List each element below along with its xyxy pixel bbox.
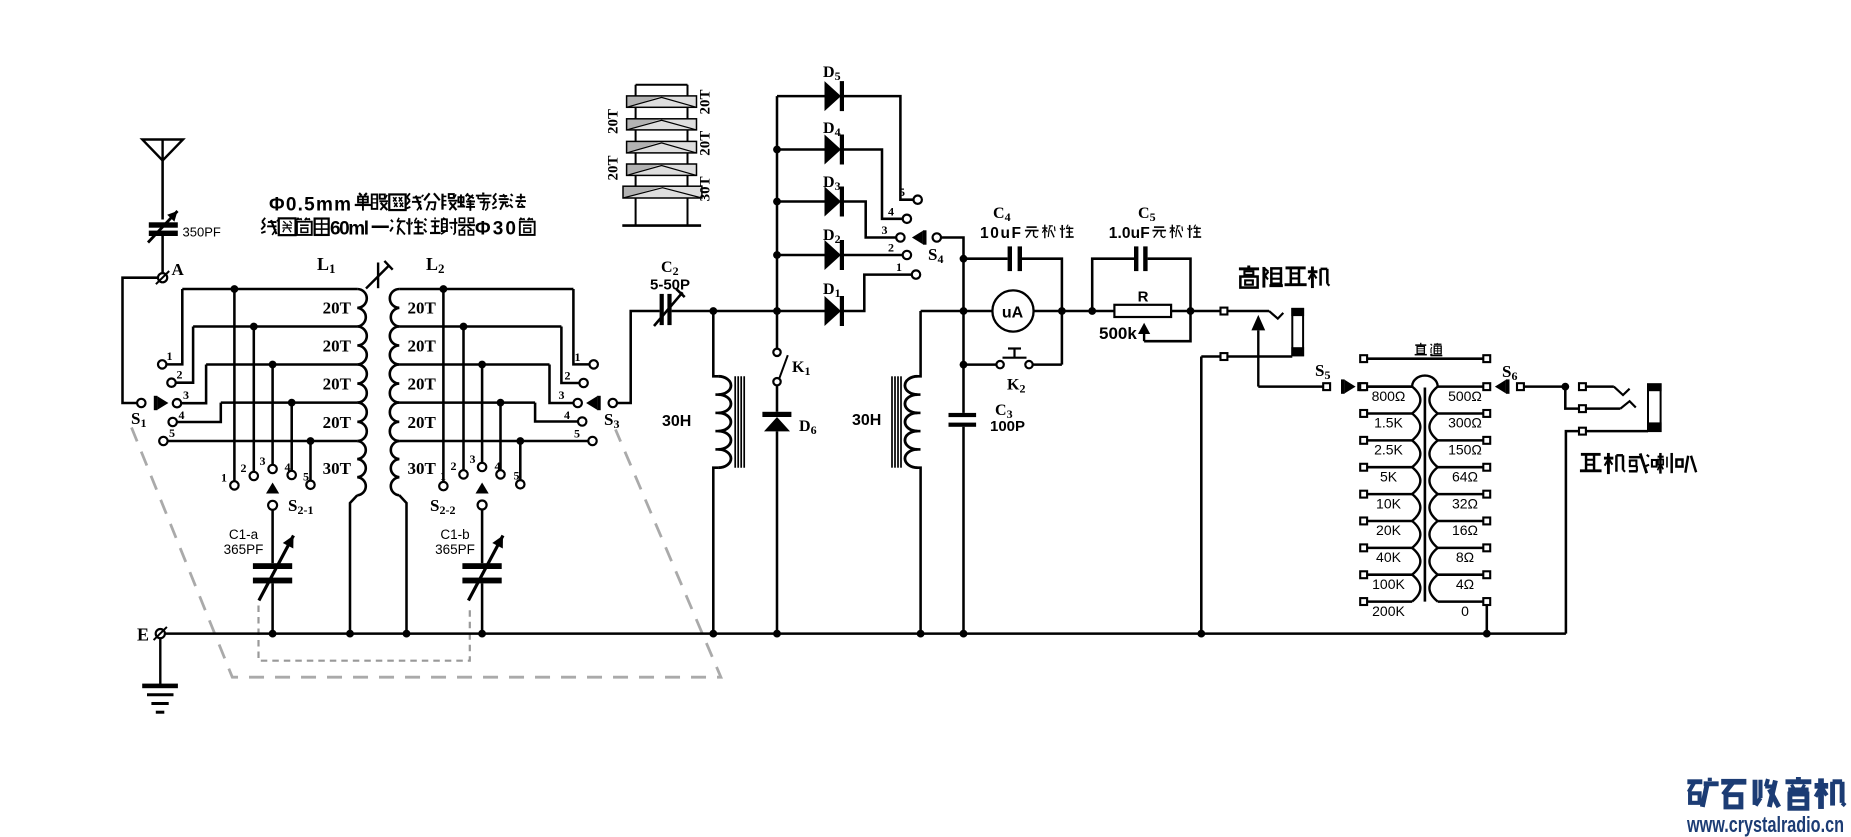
label C4 value cjk <box>1025 226 1039 237</box>
node A <box>158 273 167 282</box>
junction diode bus bottom <box>773 307 781 315</box>
wire to jack2 ring <box>1565 387 1579 409</box>
svg-text:20T: 20T <box>408 337 437 356</box>
S2-2 terminal 3 <box>478 463 486 471</box>
svg-text:1: 1 <box>440 469 446 483</box>
svg-text:1: 1 <box>167 349 173 363</box>
earth ground symbol <box>142 638 178 712</box>
junction choke1 bus <box>709 630 717 638</box>
svg-text:3: 3 <box>559 388 565 402</box>
wire uA to R <box>1034 310 1093 313</box>
honeycomb pancake 3 <box>627 141 697 153</box>
arrow of C1-b <box>468 536 503 601</box>
svg-text:Φ30: Φ30 <box>475 219 516 240</box>
svg-text:20T: 20T <box>323 337 352 356</box>
wire S3 wiper to C2 <box>617 311 660 403</box>
svg-text:365PF: 365PF <box>224 542 264 557</box>
junction D3 bus <box>773 198 781 206</box>
S5 left terminal <box>1323 383 1330 390</box>
label zhitong <box>1415 343 1427 356</box>
jack1 sleeve terminal <box>1221 353 1228 360</box>
S1 terminal 3 <box>173 399 181 407</box>
transformer right tap 4Ω <box>1438 573 1483 576</box>
S3 terminal 4 <box>578 417 586 425</box>
wire L2 tap3 to S3-t3 <box>550 365 574 404</box>
wire S1-t1 up to L1 top <box>166 289 182 364</box>
choke 2 winding <box>905 376 918 467</box>
junction output jack <box>1561 383 1569 391</box>
L2 tap line 5 <box>399 440 588 443</box>
junction 0 tap bus <box>1483 630 1491 638</box>
svg-text:30T: 30T <box>323 459 352 478</box>
node E <box>156 629 165 638</box>
wire jack2 sleeve to plug <box>1586 430 1648 433</box>
svg-text:2: 2 <box>565 369 571 383</box>
diode D1 <box>825 296 845 326</box>
diode D3 <box>825 187 845 217</box>
jack2 tip terminal <box>1579 383 1586 390</box>
svg-text:3: 3 <box>260 454 266 468</box>
capacitor C5 <box>1092 259 1134 311</box>
L1 tap line 2 <box>193 325 357 328</box>
junction L1 tap5 <box>307 437 315 445</box>
svg-text:4: 4 <box>495 459 501 473</box>
svg-text:5: 5 <box>899 185 905 199</box>
wire C2 to choke1 node <box>672 310 714 313</box>
svg-text:350PF: 350PF <box>183 225 221 240</box>
diode D2 <box>825 240 845 270</box>
svg-text:200K: 200K <box>1372 603 1405 619</box>
R wiper arrow <box>1138 323 1150 341</box>
wire L1 tap3 down to S2-1 pin3 <box>271 365 274 465</box>
S1 terminal 2 <box>167 379 175 387</box>
S5 right terminal <box>1358 383 1365 390</box>
svg-text:20T: 20T <box>323 413 352 432</box>
transformer right tap 8Ω <box>1438 547 1483 550</box>
svg-text:365PF: 365PF <box>435 542 475 557</box>
wire jack2 tip <box>1586 385 1614 388</box>
junction D2 bus <box>773 251 781 259</box>
transformer right tap 16Ω <box>1438 520 1483 523</box>
svg-text:500Ω: 500Ω <box>1448 388 1482 404</box>
junction L2 tap4 <box>497 399 505 407</box>
header line 2 CJK c <box>519 218 534 235</box>
capacitor C4 <box>964 257 1008 260</box>
junction L1 tap2 <box>250 323 258 331</box>
junction L2 tap5 <box>516 437 524 445</box>
transformer right tap 300Ω <box>1438 412 1483 415</box>
wire main to uA meter <box>964 310 993 313</box>
D4 wire <box>777 148 825 151</box>
svg-text:800Ω: 800Ω <box>1372 388 1406 404</box>
wire choke2 bottom to bus <box>918 468 921 634</box>
choke 2 core <box>891 376 893 467</box>
transformer left tap 20K <box>1367 520 1412 523</box>
S1 terminal 5 <box>159 437 167 445</box>
logo crystalradio CJK <box>1687 778 1718 807</box>
switch S1 arrow <box>154 396 169 410</box>
svg-text:A: A <box>172 260 185 279</box>
S2-2 wiper arrow <box>476 483 489 494</box>
choke 1 winding <box>718 376 731 467</box>
header line 2 CJK a <box>261 218 278 235</box>
svg-text:2: 2 <box>241 461 247 475</box>
svg-text:100P: 100P <box>990 418 1025 435</box>
wire L1 tap2 down to S2-1 pin2 <box>253 327 256 472</box>
junction C1-a bus <box>269 630 277 638</box>
wire L2 tap4 to S3-t4 <box>535 403 578 422</box>
wire jack1 sleeve to bus <box>1200 357 1203 634</box>
transformer right tap 0 <box>1438 600 1483 603</box>
svg-text:5-50P: 5-50P <box>650 277 690 294</box>
choke 2 junction stubs <box>915 393 921 396</box>
wire D1 to S4-t1 <box>844 275 912 311</box>
wire S1-t5 tap5 <box>168 440 311 443</box>
junction choke1 top <box>709 307 717 315</box>
transformer right winding <box>1429 387 1437 602</box>
transformer right tap 150Ω <box>1438 439 1483 442</box>
wire down to K2 level <box>962 311 965 365</box>
svg-text:30H: 30H <box>662 413 691 430</box>
L1 tap line 5 <box>311 440 358 443</box>
svg-text:R: R <box>1138 289 1149 306</box>
transformer left tap 100K <box>1367 573 1412 576</box>
wire K2 node to C3 <box>962 365 965 413</box>
S4 terminal 4 <box>903 215 911 223</box>
D3 wire <box>777 200 825 203</box>
transformer left tap 10K <box>1367 493 1412 496</box>
label C5 value cjk <box>1152 226 1166 237</box>
S2-1 terminal 5 <box>306 481 314 489</box>
L2 tap line 1 (top) <box>399 288 573 291</box>
wire D4 to S4-t4 <box>844 150 903 219</box>
svg-text:1: 1 <box>575 350 581 364</box>
wire L2 tap1 down to S2-2 pin1 <box>442 289 445 482</box>
svg-text:www.crystalradio.cn: www.crystalradio.cn <box>1686 812 1844 837</box>
junction C4 left <box>960 255 968 263</box>
jack2 sleeve terminal <box>1579 428 1586 435</box>
S2-1 terminal 4 <box>288 471 296 479</box>
wire S1-t4 to L1 tap4 <box>177 403 221 422</box>
svg-text:4: 4 <box>179 408 185 422</box>
transformer top arc <box>1412 376 1438 387</box>
S4 terminal 2 <box>903 251 911 259</box>
svg-text:20K: 20K <box>1376 522 1402 538</box>
wire jack2 sleeve to bus <box>1566 431 1579 633</box>
svg-text:20T: 20T <box>605 155 621 180</box>
ground bus wire E <box>165 632 1566 635</box>
svg-text:30T: 30T <box>697 176 713 201</box>
choke 1 junction stubs <box>715 393 721 396</box>
svg-text:30T: 30T <box>408 459 437 478</box>
wire jack1 contact to S5 <box>1258 385 1323 388</box>
svg-text:16Ω: 16Ω <box>1452 522 1478 538</box>
L1 tap line 1 (top) <box>182 288 357 291</box>
junction C3 bus <box>960 630 968 638</box>
junction L2 bus <box>403 630 411 638</box>
S2-1 wiper arrow <box>266 483 279 494</box>
S3 terminal 2 <box>579 379 587 387</box>
svg-text:1: 1 <box>221 471 227 485</box>
svg-text:3: 3 <box>183 388 189 402</box>
transformer right tap 32Ω <box>1438 493 1483 496</box>
label high-impedance headphone <box>1239 266 1259 288</box>
jack1 tip spring contact <box>1269 311 1283 319</box>
wire antenna drop <box>161 161 164 220</box>
junction jack1 bus <box>1197 630 1205 638</box>
transformer core <box>1424 388 1427 602</box>
wire jack2 ring <box>1586 407 1620 410</box>
svg-text:20T: 20T <box>697 131 713 156</box>
switch S4 wiper terminal <box>933 233 941 241</box>
svg-text:5: 5 <box>303 470 309 484</box>
jack2 ring spring contact <box>1620 401 1635 408</box>
svg-text:20T: 20T <box>408 299 437 318</box>
S2-2 wiper terminal <box>478 501 487 510</box>
S2-2 terminal 5 <box>516 480 524 488</box>
coil L2 winding <box>390 289 399 327</box>
L1 tap line 4 <box>221 401 357 404</box>
junction L1 tap1 <box>231 285 239 293</box>
svg-text:4: 4 <box>888 205 894 219</box>
switch S6 arrow <box>1495 379 1510 393</box>
wire L1 tap5 down to S2-1 pin5 <box>309 441 312 481</box>
switch S4 arrow <box>912 230 927 244</box>
svg-text:20T: 20T <box>323 299 352 318</box>
svg-text:C1-b: C1-b <box>440 527 469 542</box>
svg-text:300Ω: 300Ω <box>1448 415 1482 431</box>
svg-text:5: 5 <box>169 426 175 440</box>
wire main to K1 <box>776 311 779 349</box>
wire choke2 top to S4 node <box>921 310 964 313</box>
svg-text:5: 5 <box>514 469 520 483</box>
switch S5 arrow <box>1341 379 1356 393</box>
jack2 ring terminal <box>1579 405 1586 412</box>
svg-text:20T: 20T <box>323 375 352 394</box>
svg-text:30H: 30H <box>852 412 881 429</box>
svg-text:0: 0 <box>1461 603 1469 619</box>
svg-text:2.5K: 2.5K <box>1374 442 1403 458</box>
junction L1 tap4 <box>288 399 296 407</box>
wire K1 to D6 <box>776 385 779 411</box>
wire L2 tap5 down to S2-2 pin5 <box>519 441 522 480</box>
dashed gang link of C1-a/C1-b <box>259 606 470 661</box>
junction L1 bus <box>346 630 354 638</box>
S4 terminal 3 <box>896 233 904 241</box>
wire L1 tap4 down to S2-1 pin4 <box>290 403 293 471</box>
arrow of 350PF variable cap <box>148 211 178 243</box>
switch S3 wiper terminal <box>609 399 617 407</box>
svg-text:500k: 500k <box>1099 324 1137 343</box>
svg-text:4: 4 <box>285 460 291 474</box>
wire S1-t2 to L1 tap2 <box>176 327 194 383</box>
switch K1 <box>773 349 780 356</box>
diode D4 <box>825 135 845 165</box>
transformer left tap 2.5K <box>1367 439 1412 442</box>
wire L2 bottom to bus <box>399 495 406 633</box>
junction R right <box>1187 307 1195 315</box>
S2-1 terminal 2 <box>250 472 258 480</box>
wire vertical C4/K2 right <box>1061 292 1064 365</box>
header line 2 CJK b <box>372 225 389 228</box>
junction main at S4 branch <box>960 307 968 315</box>
junction L2 tap2 <box>460 323 468 331</box>
wire L2 tap4 down to S2-2 pin4 <box>499 403 502 471</box>
switch K2 <box>996 361 1003 368</box>
wire to K2 <box>964 363 997 366</box>
jack1 switch contact arrow <box>1251 315 1265 387</box>
junction C4-K2 vertical <box>1058 307 1066 315</box>
svg-text:4: 4 <box>564 408 570 422</box>
svg-text:3: 3 <box>470 452 476 466</box>
capacitor C2 5-50P <box>660 294 672 325</box>
wire L2 tap2 to S3-t2 <box>561 327 579 384</box>
wire L2 tap2 down to S2-2 pin2 <box>462 327 465 471</box>
wire C3 to bus <box>962 427 965 634</box>
svg-text:60ml: 60ml <box>330 219 369 240</box>
svg-text:E: E <box>137 625 149 645</box>
svg-text:2: 2 <box>451 459 457 473</box>
D5 wire <box>777 95 825 98</box>
S1 terminal 1 <box>158 360 166 368</box>
svg-text:4Ω: 4Ω <box>1456 576 1474 592</box>
switch S1 wiper terminal <box>137 399 145 407</box>
honeycomb pancake 5 <box>623 186 702 198</box>
junction D4 bus <box>773 146 781 154</box>
svg-text:20T: 20T <box>605 109 621 134</box>
transformer left tap 200K <box>1367 600 1412 603</box>
wire C1-b to bus <box>481 583 484 633</box>
meter uA <box>992 290 1033 331</box>
svg-text:Φ0.5mm: Φ0.5mm <box>269 195 351 216</box>
wire A to S1 <box>123 278 159 403</box>
S2-1 terminal 3 <box>268 465 276 473</box>
transformer left winding <box>1412 387 1420 602</box>
honeycomb pancake 1 <box>627 96 697 107</box>
transformer left tap 40K <box>1367 547 1412 550</box>
capacitor C1-b plates <box>462 563 501 583</box>
svg-text:32Ω: 32Ω <box>1452 495 1478 511</box>
svg-text:40K: 40K <box>1376 549 1402 565</box>
wire S6 to output jack <box>1524 385 1565 388</box>
wire S1-t3 to L1 tap3 <box>181 365 206 404</box>
svg-text:100K: 100K <box>1372 576 1405 592</box>
wire to diode bus <box>713 310 777 313</box>
wire S5 to transformer <box>1366 385 1413 388</box>
wire L1 tap1 down to S2-1 pin1 <box>233 289 236 481</box>
junction C5 left <box>1088 307 1096 315</box>
L2 tap line 4 <box>399 401 535 404</box>
wire D2 to S4-t2 <box>844 254 903 257</box>
wire D3 to S4-t3 <box>844 202 896 238</box>
wire D5 to S4-t5 <box>844 96 914 200</box>
diode D6 <box>762 412 791 432</box>
junction D6 bus <box>773 630 781 638</box>
svg-text:C1-a: C1-a <box>229 527 259 542</box>
svg-text:20T: 20T <box>408 375 437 394</box>
capacitor C1-a plates <box>253 563 292 583</box>
svg-text:1.0uF: 1.0uF <box>1109 225 1150 242</box>
svg-text:20T: 20T <box>697 89 713 114</box>
jack1 plug symbol <box>1291 308 1304 356</box>
coil L1 winding <box>357 289 366 327</box>
diode bus vertical <box>776 96 779 311</box>
S3 terminal 5 <box>588 437 596 445</box>
S2-1 wiper terminal <box>268 501 277 510</box>
wire R wiper return <box>1144 311 1190 341</box>
arrow of C1-a <box>259 536 294 601</box>
junction choke2 bus <box>917 630 925 638</box>
junction L1 tap3 <box>269 361 277 369</box>
wire cap to node A <box>161 236 164 273</box>
variable capacitor 350PF <box>149 222 178 236</box>
svg-text:5K: 5K <box>1380 468 1398 484</box>
S3 terminal 3 <box>574 399 582 407</box>
wire L2 tap3 down to S2-2 pin3 <box>481 365 484 463</box>
S2-2 terminal 1 <box>439 482 447 490</box>
svg-text:uA: uA <box>1002 305 1024 322</box>
junction L2 tap1 <box>440 285 448 293</box>
diode D5 <box>825 81 845 111</box>
wire transformer 0 tap to bus <box>1486 605 1489 633</box>
wire C4 right down <box>1022 259 1062 292</box>
choke 1 core <box>734 376 736 467</box>
wire S2-1 wiper to C1-a <box>271 510 274 563</box>
antenna <box>142 140 183 161</box>
svg-text:2: 2 <box>177 368 183 382</box>
svg-text:10K: 10K <box>1376 495 1402 511</box>
wire L2 tap1 to S3-t1 <box>573 289 589 364</box>
wire S4 node down to main <box>962 259 965 311</box>
S4 terminal 5 <box>914 196 922 204</box>
jack2 plug symbol <box>1647 383 1662 432</box>
wire C1-a to bus <box>271 583 274 633</box>
S2-1 terminal 1 <box>230 481 238 489</box>
capacitor C3 <box>949 413 977 427</box>
L2 tap line 3 <box>399 363 549 366</box>
honeycomb coil inset drawing <box>622 85 701 226</box>
wire D6 to bus <box>776 431 779 633</box>
wire C5 right down <box>1148 259 1191 311</box>
honeycomb pancake 4 <box>627 164 697 175</box>
svg-text:150Ω: 150Ω <box>1448 442 1482 458</box>
bypass line (zhitong) <box>1360 355 1367 362</box>
S6 right terminal <box>1517 383 1524 390</box>
wire L1 bottom to bus <box>350 495 357 633</box>
wire choke2 top lead <box>918 311 921 376</box>
arrow of C2 trimmer <box>654 289 685 326</box>
jack1 sleeve wire <box>1201 355 1292 358</box>
svg-text:1.5K: 1.5K <box>1374 415 1403 431</box>
svg-text:8Ω: 8Ω <box>1456 549 1474 565</box>
svg-text:64Ω: 64Ω <box>1452 468 1478 484</box>
honeycomb pancake 2 <box>627 119 697 130</box>
S1 terminal 4 <box>169 418 177 426</box>
wire to phone jack <box>1191 310 1221 313</box>
jack2 tip spring contact <box>1614 387 1630 395</box>
dashed gang link of S1/S2/S3 <box>132 428 721 678</box>
svg-text:20T: 20T <box>408 413 437 432</box>
junction L2 tap3 <box>478 361 486 369</box>
svg-text:5: 5 <box>574 427 580 441</box>
svg-text:3: 3 <box>882 223 888 237</box>
S2-2 terminal 2 <box>459 470 467 478</box>
label phone-or-speaker <box>1580 453 1602 472</box>
wire choke1 top lead <box>713 311 718 376</box>
junction C1-b bus <box>478 630 486 638</box>
transformer left tap 1.5K <box>1367 412 1412 415</box>
wire S2-2 wiper to C1-b <box>481 510 484 564</box>
